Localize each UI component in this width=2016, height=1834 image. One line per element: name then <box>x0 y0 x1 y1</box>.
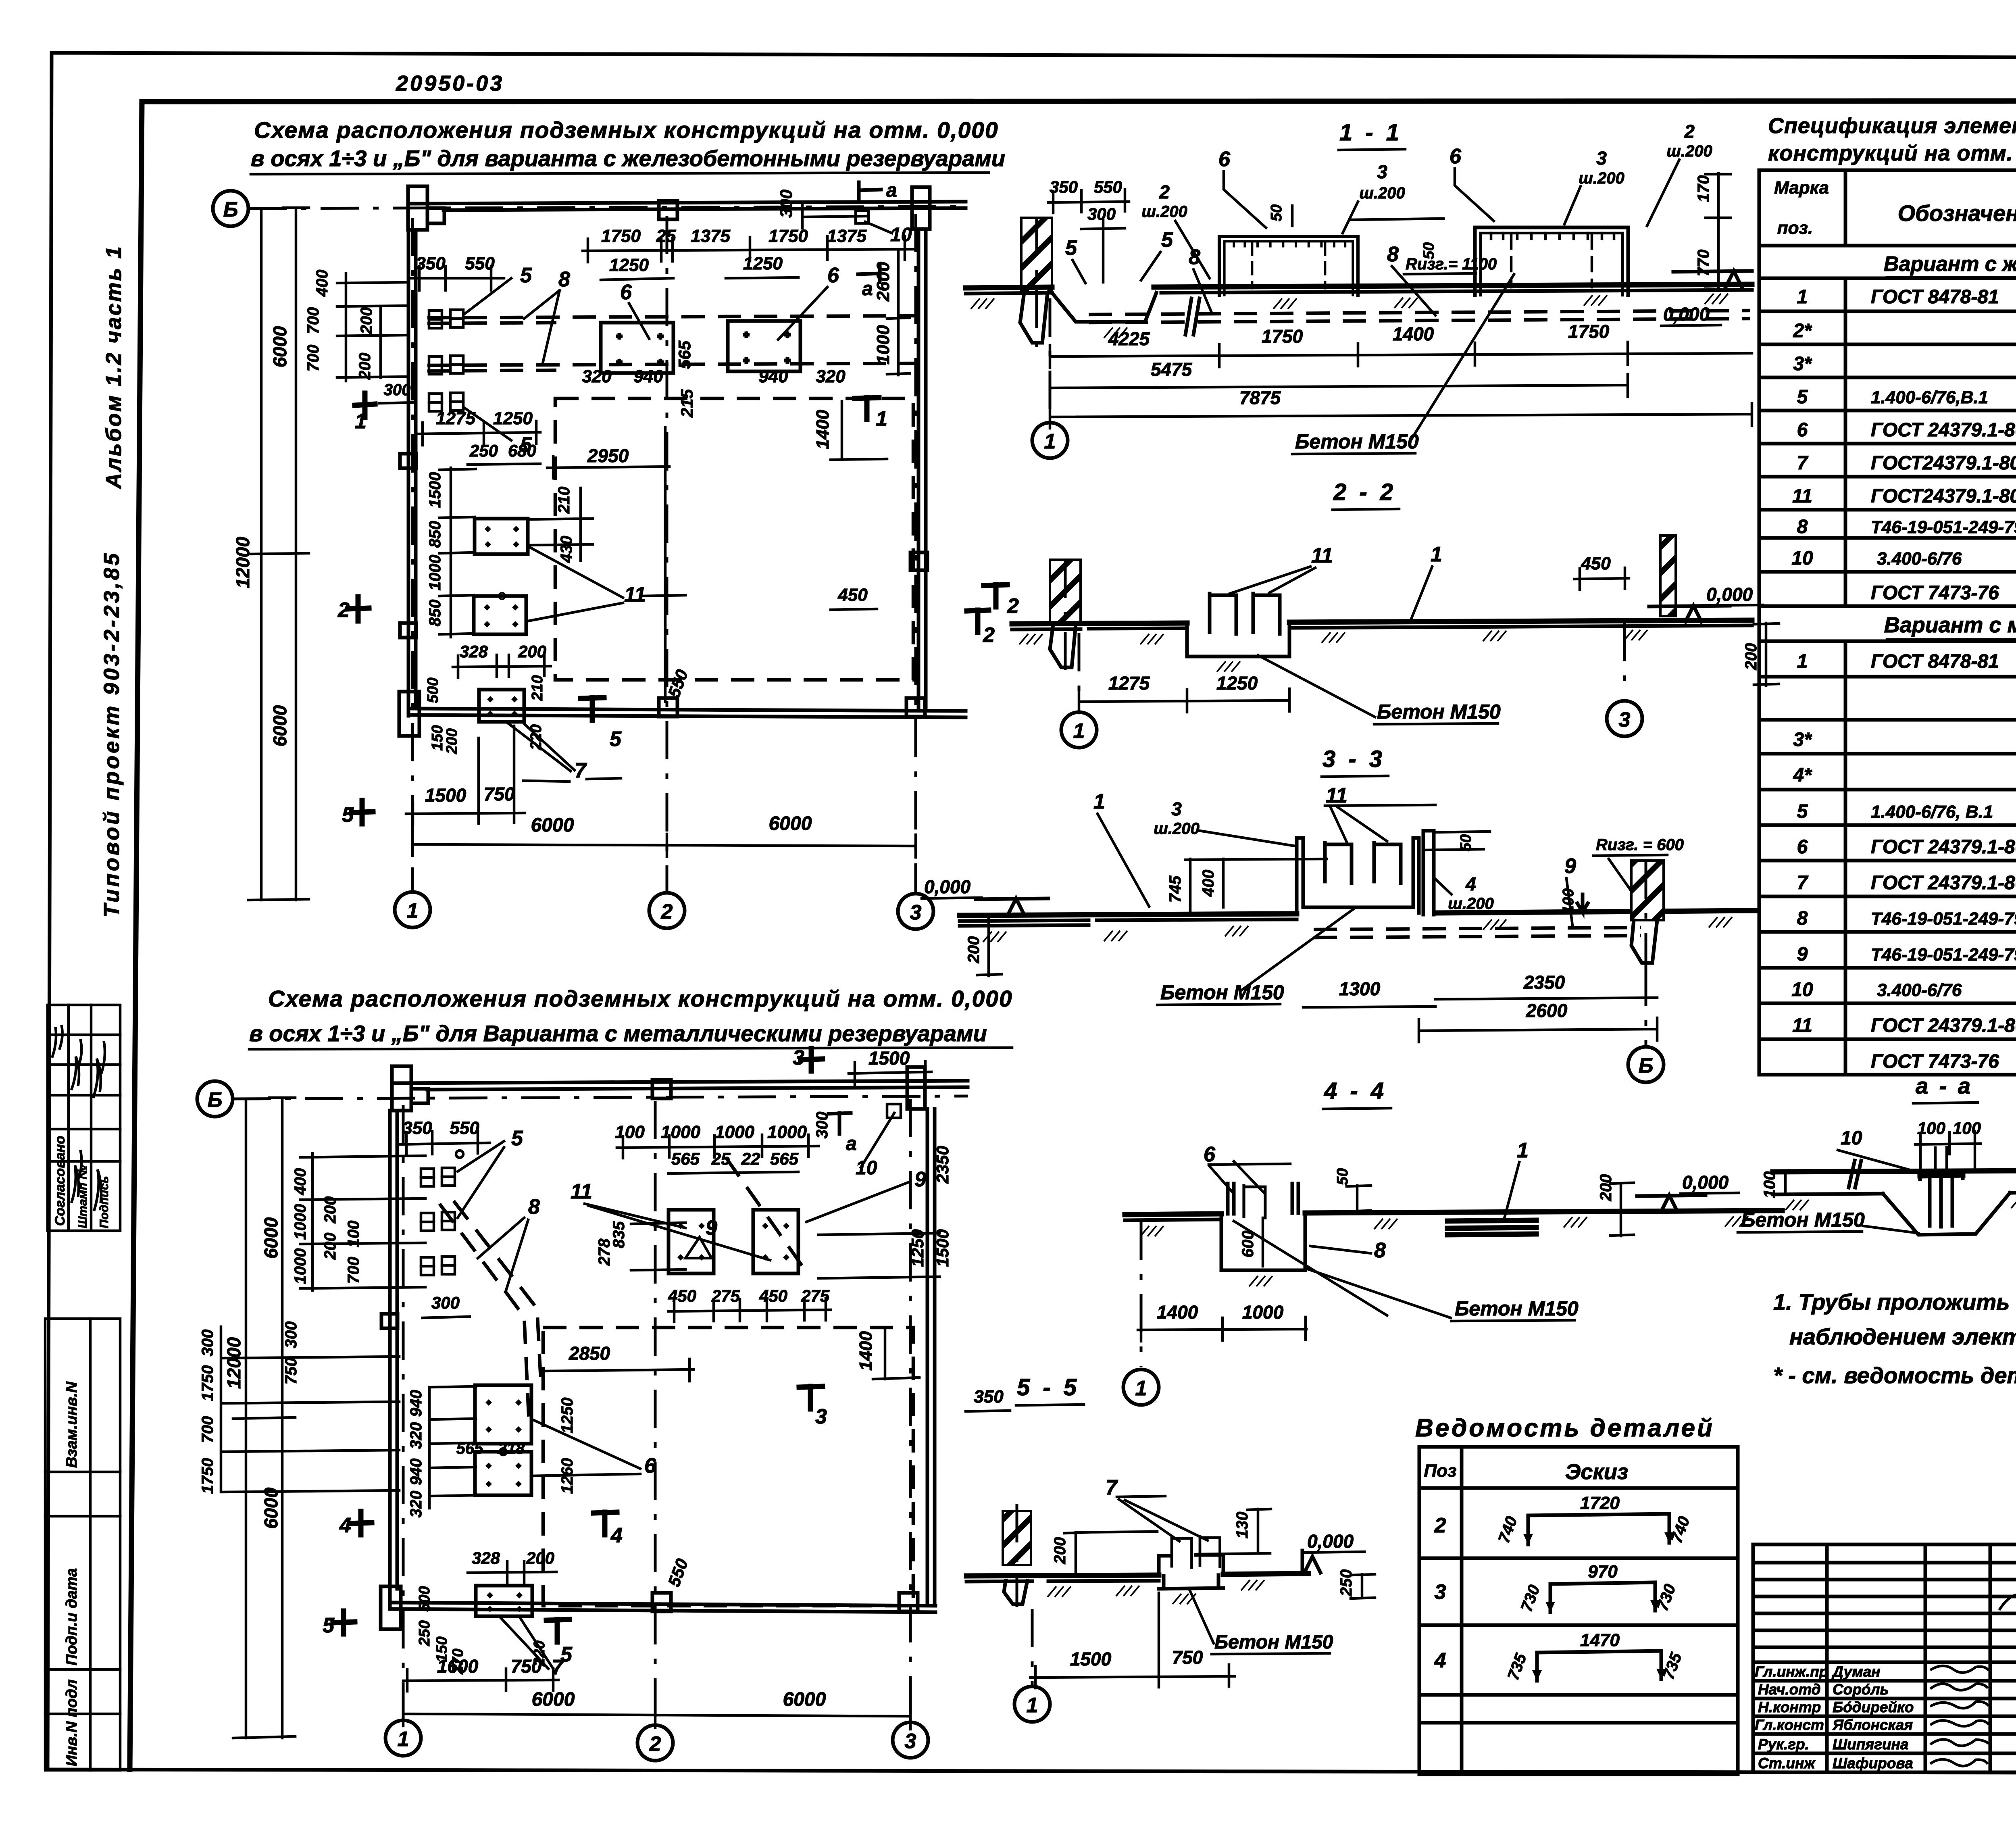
svg-text:Б: Б <box>1639 1054 1654 1077</box>
svg-text:6: 6 <box>1797 836 1808 858</box>
svg-text:22: 22 <box>741 1149 760 1168</box>
svg-text:2350: 2350 <box>1523 972 1565 993</box>
svg-text:1750: 1750 <box>1262 326 1303 347</box>
svg-text:6000: 6000 <box>769 813 812 834</box>
svg-text:3: 3 <box>1596 148 1607 169</box>
left vertical dim chains <box>233 1098 295 1738</box>
svg-text:6: 6 <box>1450 145 1462 168</box>
svg-text:3: 3 <box>793 1046 804 1069</box>
svg-text:20950-03: 20950-03 <box>396 71 504 96</box>
cut 4 marks <box>350 1511 372 1535</box>
svg-text:9: 9 <box>1564 854 1576 878</box>
svg-text:ГОСТ 8478-81: ГОСТ 8478-81 <box>1871 286 1999 308</box>
small wall plates <box>429 311 442 328</box>
svg-text:4: 4 <box>339 1514 351 1537</box>
svg-text:12000: 12000 <box>223 1337 244 1389</box>
svg-text:1000: 1000 <box>767 1122 807 1142</box>
svg-text:500: 500 <box>425 677 442 703</box>
slab double lines <box>1447 1220 1536 1235</box>
svg-text:12000: 12000 <box>232 537 253 588</box>
svg-text:400: 400 <box>1200 870 1217 897</box>
svg-text:3.400-6/76: 3.400-6/76 <box>1877 549 1962 569</box>
svg-text:1: 1 <box>1027 1694 1038 1717</box>
svg-text:200: 200 <box>965 936 983 964</box>
svg-text:300: 300 <box>777 190 796 218</box>
svg-text:Гл.инж.пр: Гл.инж.пр <box>1755 1663 1828 1680</box>
pit <box>1187 622 1289 656</box>
section 2 rows <box>1759 641 2016 1039</box>
svg-text:Поз: Поз <box>1424 1461 1457 1481</box>
svg-text:250: 250 <box>469 441 498 460</box>
svg-text:300: 300 <box>1087 204 1116 223</box>
svg-text:400: 400 <box>313 270 331 297</box>
svg-text:9: 9 <box>1797 944 1808 965</box>
axis Б <box>197 1081 233 1117</box>
svg-text:700: 700 <box>304 345 322 372</box>
svg-text:5: 5 <box>342 803 354 827</box>
svg-text:400: 400 <box>292 1168 309 1196</box>
svg-text:11: 11 <box>1792 1015 1812 1036</box>
svg-text:1750: 1750 <box>1568 321 1610 342</box>
svg-text:3.400-6/76: 3.400-6/76 <box>1877 980 1962 1000</box>
svg-text:Шафирова: Шафирова <box>1833 1755 1913 1771</box>
squiggle signatures <box>1931 1594 2016 1766</box>
svg-text:1: 1 <box>1073 719 1085 743</box>
svg-text:8: 8 <box>1374 1239 1386 1262</box>
dashed pipes horizontal <box>427 316 917 318</box>
svg-text:Б: Б <box>208 1088 223 1112</box>
svg-text:6000: 6000 <box>269 705 290 746</box>
svg-text:50: 50 <box>1268 204 1285 221</box>
svg-text:200: 200 <box>518 642 546 661</box>
svg-text:450: 450 <box>837 585 868 605</box>
svg-text:680: 680 <box>508 441 536 460</box>
svg-text:6000: 6000 <box>531 815 574 836</box>
svg-text:10: 10 <box>1791 979 1813 1000</box>
top wall <box>394 1081 968 1083</box>
floor lines <box>1773 1171 2016 1172</box>
svg-text:ш.200: ш.200 <box>1448 895 1493 913</box>
svg-text:450: 450 <box>1581 554 1611 573</box>
svg-text:565: 565 <box>671 1149 700 1168</box>
svg-text:Бо́дирейко: Бо́дирейко <box>1833 1699 1914 1715</box>
svg-text:200: 200 <box>321 1233 339 1260</box>
svg-text:1750: 1750 <box>601 226 641 246</box>
svg-text:Гл.конст: Гл.конст <box>1755 1717 1824 1733</box>
svg-text:328: 328 <box>460 642 488 661</box>
svg-text:1250: 1250 <box>1216 673 1258 694</box>
svg-text:565: 565 <box>675 340 694 369</box>
svg-text:200: 200 <box>1597 1174 1615 1202</box>
svg-text:1375: 1375 <box>827 226 866 246</box>
soil ticks <box>1140 1226 1164 1236</box>
svg-text:1000: 1000 <box>292 1248 309 1284</box>
cut T5 bottom middle <box>581 698 604 720</box>
svg-text:Вариант с железобетонными рез: Вариант с железобетонными резервуарами <box>1884 252 2016 276</box>
svg-text:наблюдением электромонтажников: наблюдением электромонтажников. <box>1789 1324 2016 1349</box>
left signature grid <box>1753 1544 2016 1772</box>
axis Б dash-dot line <box>248 206 968 208</box>
soil ticks <box>1019 634 1043 644</box>
svg-text:Альбом 1.2 часть 1: Альбом 1.2 часть 1 <box>102 245 126 490</box>
svg-text:5: 5 <box>610 727 622 751</box>
svg-text:1 - 1: 1 - 1 <box>1339 119 1402 146</box>
svg-text:Подп.и дата: Подп.и дата <box>63 1568 80 1665</box>
dashed pit rect <box>543 1328 913 1606</box>
axis circle 1 <box>1049 298 1052 422</box>
cut 5 marks <box>333 1611 355 1634</box>
mid plates <box>475 1385 531 1495</box>
break marks <box>1849 1160 2016 1188</box>
level <box>1302 1551 1320 1573</box>
svg-text:Б: Б <box>223 198 238 221</box>
svg-text:6: 6 <box>1218 148 1231 171</box>
svg-text:500: 500 <box>416 1586 433 1611</box>
svg-text:218: 218 <box>498 1440 525 1457</box>
svg-text:Бетон М150: Бетон М150 <box>1160 981 1284 1004</box>
svg-text:ш.200: ш.200 <box>1141 203 1187 221</box>
svg-text:700: 700 <box>304 307 322 334</box>
svg-text:Бетон М150: Бетон М150 <box>1214 1632 1333 1653</box>
floor lines <box>1125 1211 1782 1215</box>
svg-text:2 - 2: 2 - 2 <box>1333 479 1396 505</box>
svg-text:1500: 1500 <box>425 785 467 806</box>
svg-text:275: 275 <box>711 1286 740 1305</box>
svg-text:6: 6 <box>620 281 632 304</box>
svg-text:ГОСТ 24379.1-80: ГОСТ 24379.1-80 <box>1871 836 2016 858</box>
svg-text:2: 2 <box>983 623 995 647</box>
axis Б <box>1645 968 1647 1045</box>
svg-text:700: 700 <box>199 1416 217 1443</box>
svg-text:2850: 2850 <box>569 1343 610 1364</box>
svg-text:1: 1 <box>1517 1139 1529 1162</box>
svg-text:1400: 1400 <box>1157 1302 1198 1323</box>
hatched pier <box>1003 1511 1031 1565</box>
svg-text:1000: 1000 <box>1242 1302 1284 1323</box>
svg-text:Спецификация элементов к схеме: Спецификация элементов к схеме расположе… <box>1768 114 2016 138</box>
top wall <box>409 202 966 204</box>
svg-text:220: 220 <box>528 724 545 750</box>
svg-text:1500: 1500 <box>426 472 444 508</box>
svg-text:5: 5 <box>1797 801 1808 822</box>
axis verticals <box>402 1105 405 1720</box>
handwriting squiggles in stamp <box>52 1026 105 1210</box>
trench dip <box>1052 293 1156 322</box>
svg-text:Соро́ль: Соро́ль <box>1833 1681 1889 1698</box>
soil ticks <box>983 932 1006 942</box>
svg-text:940: 940 <box>633 367 663 386</box>
svg-text:9: 9 <box>706 1216 717 1240</box>
rows data section 2 <box>1791 645 2016 1073</box>
svg-text:6000: 6000 <box>260 1487 281 1529</box>
svg-text:2: 2 <box>1684 121 1695 142</box>
svg-text:Инв.N подл: Инв.N подл <box>63 1680 80 1766</box>
svg-text:700: 700 <box>345 1257 362 1284</box>
svg-text:* - см. ведомость деталей: * - см. ведомость деталей <box>1773 1363 2016 1388</box>
svg-text:3*: 3* <box>1793 353 1812 375</box>
svg-text:430: 430 <box>558 536 575 563</box>
svg-text:5 - 5: 5 - 5 <box>1017 1374 1080 1401</box>
svg-text:170: 170 <box>1695 175 1712 202</box>
svg-text:1: 1 <box>407 899 419 923</box>
svg-text:300: 300 <box>384 381 411 399</box>
svg-text:450: 450 <box>668 1286 696 1305</box>
svg-text:1: 1 <box>1797 286 1808 308</box>
svg-text:Схема расположения подземных: Схема расположения подземных конструкций… <box>254 117 999 143</box>
svg-text:2350: 2350 <box>933 1146 952 1184</box>
floor lines <box>960 911 1758 915</box>
svg-text:10: 10 <box>1791 548 1813 569</box>
svg-text:2950: 2950 <box>587 445 629 466</box>
dashed pipes <box>1089 311 1750 315</box>
bottom wall <box>390 1603 935 1606</box>
svg-text:ГОСТ 7473-76: ГОСТ 7473-76 <box>1871 1051 1999 1072</box>
rows data section 1 <box>1791 281 2016 604</box>
svg-text:1470: 1470 <box>1580 1630 1620 1650</box>
big plates with bolts <box>601 323 673 373</box>
svg-text:4: 4 <box>1434 1649 1446 1672</box>
svg-text:3: 3 <box>1619 708 1631 732</box>
svg-text:ГОСТ 7473-76: ГОСТ 7473-76 <box>1871 582 1999 604</box>
pit <box>1159 1555 1223 1575</box>
middle plates with bolts <box>474 519 528 634</box>
svg-text:конструкций на отм. 0,000 в о: конструкций на отм. 0,000 в осях 1÷3 и „… <box>1768 141 2016 165</box>
outer box <box>1759 170 2016 1075</box>
foundation U-boxes <box>1219 236 1358 295</box>
svg-text:1000: 1000 <box>426 555 444 591</box>
svg-text:а: а <box>862 278 873 300</box>
svg-text:10: 10 <box>1841 1127 1862 1149</box>
bottom wall <box>408 709 966 711</box>
svg-text:2: 2 <box>649 1732 661 1756</box>
section 3 cut top <box>801 1048 823 1071</box>
svg-text:300: 300 <box>199 1330 217 1357</box>
svg-text:Rизг. = 600: Rизг. = 600 <box>1596 836 1684 854</box>
header horizontals <box>1759 244 2016 248</box>
svg-text:1250: 1250 <box>609 255 649 275</box>
svg-text:8: 8 <box>558 268 570 291</box>
hatched pier right <box>1631 861 1664 920</box>
svg-text:7875: 7875 <box>1239 387 1281 408</box>
svg-text:ГОСТ24379.1-80: ГОСТ24379.1-80 <box>1871 486 2016 507</box>
axis circles <box>1078 633 1081 693</box>
svg-text:Бетон М150: Бетон М150 <box>1455 1297 1579 1320</box>
svg-text:7: 7 <box>575 759 587 782</box>
svg-text:Яблонская: Яблонская <box>1832 1717 1913 1733</box>
pit walls above floor <box>1297 838 1419 915</box>
cut 2 left <box>348 597 369 621</box>
svg-text:Бетон М150: Бетон М150 <box>1377 700 1501 723</box>
svg-text:250: 250 <box>416 1620 433 1646</box>
svg-text:328: 328 <box>472 1548 500 1567</box>
svg-text:ГОСТ24379.1-80: ГОСТ24379.1-80 <box>1871 452 2016 474</box>
svg-text:300: 300 <box>813 1112 831 1139</box>
svg-text:200: 200 <box>1051 1537 1069 1565</box>
svg-text:1250: 1250 <box>743 254 783 273</box>
svg-text:ш.200: ш.200 <box>1666 142 1712 160</box>
section 1 rows <box>1759 278 2016 606</box>
svg-text:Бетон М150: Бетон М150 <box>1295 430 1419 453</box>
axis circle <box>1031 1609 1034 1685</box>
svg-text:970: 970 <box>1588 1562 1618 1582</box>
svg-text:1375: 1375 <box>691 226 730 246</box>
svg-text:ГОСТ 8478-81: ГОСТ 8478-81 <box>1871 651 1999 672</box>
right vertical plate <box>1423 831 1434 915</box>
svg-text:Обозначение: Обозначение <box>1898 200 2016 226</box>
bottom small plate <box>479 690 524 722</box>
svg-text:1: 1 <box>876 407 887 431</box>
svg-text:0,000: 0,000 <box>924 876 971 897</box>
svg-text:5: 5 <box>520 264 532 287</box>
wall pilaster top-right <box>912 187 930 229</box>
dashed pipes diagonal <box>439 1204 529 1423</box>
svg-text:1: 1 <box>1431 543 1442 566</box>
svg-text:2600: 2600 <box>873 262 893 302</box>
svg-text:1600: 1600 <box>437 1656 479 1677</box>
svg-text:320: 320 <box>816 367 846 386</box>
svg-text:1: 1 <box>1135 1377 1147 1400</box>
svg-text:450: 450 <box>759 1286 787 1305</box>
svg-text:350: 350 <box>974 1387 1004 1407</box>
left vertical dim chains <box>248 208 309 900</box>
svg-text:1500: 1500 <box>868 1048 910 1069</box>
inner drawing frame left <box>130 102 142 1769</box>
level mark <box>1649 606 1730 622</box>
floor <box>966 1573 1308 1576</box>
left stamp lower table <box>45 1319 120 1770</box>
svg-text:1400: 1400 <box>813 410 833 449</box>
svg-text:11: 11 <box>1792 486 1812 507</box>
right wall <box>926 1109 929 1605</box>
axis circle <box>1140 1222 1143 1367</box>
floor slab lines <box>966 287 1052 288</box>
pit <box>1221 1213 1305 1270</box>
svg-text:1275: 1275 <box>1108 673 1150 694</box>
cut 5 bottom-left <box>352 800 373 824</box>
svg-text:Эскиз: Эскиз <box>1565 1460 1629 1484</box>
svg-text:835: 835 <box>610 1221 628 1248</box>
cut mark T1 top right inside <box>855 398 879 419</box>
svg-text:1750: 1750 <box>199 1365 217 1401</box>
trapezoid pit <box>1883 1193 2010 1235</box>
right wall <box>917 229 921 710</box>
svg-text:5: 5 <box>1161 228 1173 252</box>
soil ticks <box>1785 1200 1809 1210</box>
svg-text:8: 8 <box>1797 516 1808 538</box>
svg-text:200: 200 <box>358 307 375 335</box>
axis circles 1 2 3 <box>395 892 430 927</box>
svg-text:0,000: 0,000 <box>1682 1172 1729 1193</box>
svg-text:750: 750 <box>484 784 515 804</box>
svg-text:210: 210 <box>555 487 573 514</box>
svg-text:100: 100 <box>615 1122 645 1142</box>
inner drawing frame top <box>144 101 2016 102</box>
column squares on top wall <box>659 201 677 219</box>
svg-text:4: 4 <box>1465 873 1476 894</box>
svg-text:1250: 1250 <box>908 1229 927 1267</box>
Ta cut top right <box>829 1113 851 1134</box>
svg-text:6000: 6000 <box>269 326 290 367</box>
axis Б circle <box>213 191 248 226</box>
svg-text:3: 3 <box>815 1405 827 1428</box>
svg-text:1000: 1000 <box>292 1204 309 1240</box>
svg-text:9: 9 <box>914 1168 926 1191</box>
svg-text:850: 850 <box>426 521 444 548</box>
svg-text:3 - 3: 3 - 3 <box>1322 746 1385 772</box>
svg-text:Вариант с металлическими ре: Вариант с металлическими резервуарами <box>1884 613 2016 637</box>
svg-text:1500: 1500 <box>1070 1649 1112 1669</box>
svg-text:Н.контр: Н.контр <box>1758 1699 1821 1715</box>
svg-text:5: 5 <box>1797 386 1808 408</box>
svg-text:6: 6 <box>1797 419 1808 441</box>
svg-text:а: а <box>846 1133 857 1155</box>
svg-text:1250: 1250 <box>558 1398 576 1434</box>
svg-text:6: 6 <box>644 1454 656 1478</box>
hatched small pier right <box>1660 536 1676 616</box>
svg-text:100: 100 <box>1560 888 1577 914</box>
svg-text:ГОСТ 24379.1-80: ГОСТ 24379.1-80 <box>1871 419 2016 441</box>
svg-text:в осях 1÷3 и „Б" для варианта: в осях 1÷3 и „Б" для варианта с железобе… <box>251 146 1005 171</box>
svg-text:Рук.гр.: Рук.гр. <box>1758 1736 1809 1753</box>
svg-text:3: 3 <box>910 901 922 924</box>
svg-text:320: 320 <box>582 367 612 386</box>
svg-text:ГОСТ 24379.1-80: ГОСТ 24379.1-80 <box>1871 1015 2016 1036</box>
svg-text:1000: 1000 <box>873 325 893 365</box>
column verticals <box>1845 170 2016 1075</box>
svg-text:1275: 1275 <box>436 408 475 428</box>
wall plates small <box>421 1169 434 1186</box>
svg-text:200: 200 <box>444 728 460 754</box>
svg-text:940: 940 <box>407 1390 425 1417</box>
svg-text:8: 8 <box>1797 908 1808 929</box>
svg-text:Взам.инв.N: Взам.инв.N <box>63 1381 80 1468</box>
svg-text:Ведомость деталей: Ведомость деталей <box>1415 1414 1714 1442</box>
svg-text:750: 750 <box>1172 1647 1203 1668</box>
svg-text:210: 210 <box>529 675 546 701</box>
svg-text:Согласовано: Согласовано <box>52 1136 68 1226</box>
a-a cut marks top right <box>859 182 881 198</box>
svg-text:6: 6 <box>1204 1143 1216 1166</box>
svg-text:Т46-19-051-249-79: Т46-19-051-249-79 <box>1871 945 2016 965</box>
svg-text:1500: 1500 <box>933 1229 952 1267</box>
svg-text:3: 3 <box>905 1730 916 1753</box>
level mark 0.000 <box>1673 271 1752 287</box>
svg-text:ш.200: ш.200 <box>1359 184 1405 202</box>
dashed pipes <box>1314 927 1641 930</box>
svg-text:200: 200 <box>526 1548 554 1567</box>
svg-text:1400: 1400 <box>1393 323 1434 344</box>
svg-text:2600: 2600 <box>1526 1000 1568 1021</box>
hatched pier <box>1050 560 1081 624</box>
svg-text:200: 200 <box>1742 643 1760 671</box>
svg-text:3: 3 <box>1377 161 1387 182</box>
svg-text:1: 1 <box>1044 430 1056 453</box>
axis circles <box>385 1720 421 1756</box>
svg-text:550: 550 <box>450 1118 479 1138</box>
svg-text:1: 1 <box>398 1728 409 1751</box>
svg-text:8: 8 <box>1387 243 1399 266</box>
svg-text:750: 750 <box>511 1656 542 1677</box>
top right plates (vertical) <box>669 1210 798 1273</box>
svg-text:Бетон М150: Бетон М150 <box>1741 1209 1865 1231</box>
svg-text:Rизг.= 1100: Rизг.= 1100 <box>1406 255 1497 273</box>
svg-text:50: 50 <box>1334 1168 1351 1185</box>
svg-text:300: 300 <box>431 1293 460 1312</box>
svg-text:940: 940 <box>407 1459 425 1486</box>
svg-text:1.400-6/76, В.1: 1.400-6/76, В.1 <box>1871 802 1993 822</box>
svg-text:2: 2 <box>661 900 673 923</box>
svg-text:Ст.инж: Ст.инж <box>1758 1755 1816 1771</box>
